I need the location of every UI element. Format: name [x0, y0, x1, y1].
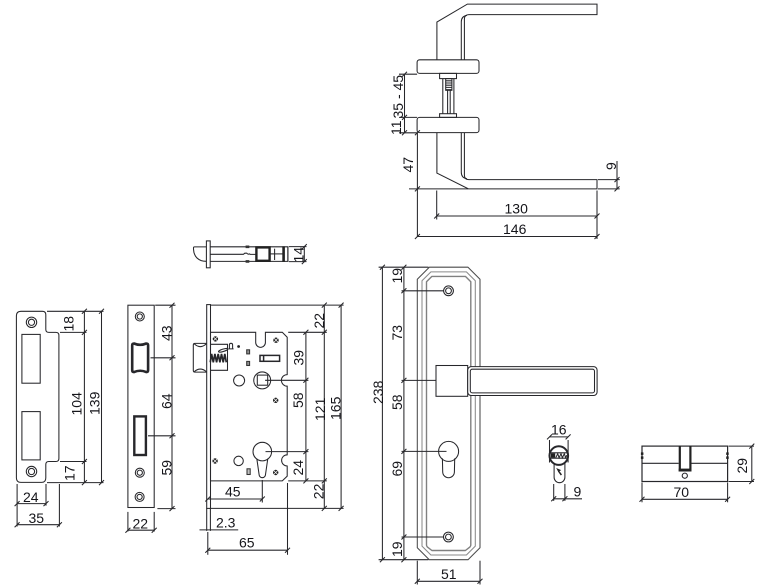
svg-text:22: 22 [133, 516, 149, 532]
dim line 39-58-24 [305, 332, 307, 481]
PART2 faceplate [125, 303, 175, 533]
key ward mark [556, 468, 561, 472]
extension 29 bottom [729, 481, 754, 483]
svg-text:22: 22 [311, 313, 327, 329]
svg-text:17: 17 [62, 465, 78, 481]
backplate hub [436, 366, 468, 397]
latch unit dark bar [282, 246, 285, 262]
small square lower [247, 361, 250, 365]
dim line 238 [381, 267, 383, 560]
ticks 9 [615, 177, 620, 191]
dim line 51 [417, 580, 480, 582]
ticks left dims [402, 72, 420, 239]
extension 29 top [729, 445, 754, 447]
dim line 18-104-17 [83, 311, 85, 482]
PART4 latch assembly [194, 241, 307, 268]
faceplate screw bottom [135, 492, 144, 501]
backplate inner outline [427, 276, 471, 550]
lower rosette [417, 117, 479, 132]
svg-text:9: 9 [574, 483, 582, 499]
keyhole pear [257, 459, 268, 478]
svg-text:130: 130 [505, 201, 529, 217]
dim line 165 [340, 305, 342, 508]
PART8 euro cylinder [640, 444, 755, 503]
faceplate deadbolt cutout [134, 416, 146, 455]
extension 9 right [564, 484, 566, 501]
backplate lever outer [468, 367, 597, 396]
backplate keyhole pear [442, 458, 454, 477]
svg-text:65: 65 [239, 535, 255, 551]
cylinder end ribs right [726, 452, 729, 455]
key cylinder face circle [550, 446, 569, 465]
svg-text:19: 19 [389, 268, 405, 284]
spindle threaded section [446, 79, 452, 91]
dim line 29 [751, 446, 753, 481]
svg-text:69: 69 [389, 461, 405, 477]
ticks faceplate dims [170, 303, 175, 511]
svg-text:47: 47 [400, 157, 416, 173]
cylinder parting line [642, 462, 728, 464]
extension screw top [402, 290, 444, 292]
extension 51 left [416, 561, 418, 585]
svg-text:73: 73 [389, 325, 405, 341]
extension 14 bottom [289, 261, 307, 263]
PART5 handle side view [388, 4, 620, 239]
latch unit bolt head [194, 247, 207, 261]
lower lever inner line [461, 133, 467, 179]
extension latch center [151, 357, 176, 359]
latch unit stop ticks [246, 247, 250, 262]
extension 16 right [567, 440, 569, 463]
extension 16 left [549, 440, 551, 463]
extension rosette gap bottom [399, 116, 417, 118]
key slot block [551, 453, 555, 457]
keyhole circle [253, 442, 272, 461]
screw top-right [273, 338, 278, 343]
screw mid-right [273, 398, 278, 403]
upper lever inner line [461, 15, 467, 59]
svg-text:29: 29 [734, 458, 750, 474]
lower hole [234, 456, 243, 465]
ticks 51 [415, 579, 483, 584]
svg-text:35: 35 [29, 510, 45, 526]
key slot wards [556, 454, 567, 458]
cam channel left wall [679, 446, 681, 471]
strike screw hole bottom [26, 466, 36, 476]
PART1 strike plate [15, 309, 104, 527]
faceplate screw top [135, 312, 144, 321]
extension 65 right [287, 483, 289, 555]
ticks 146 [595, 234, 600, 239]
ticks strike bottom dims [15, 501, 62, 527]
key slot band [550, 453, 568, 458]
svg-text:139: 139 [87, 391, 103, 415]
dim line 35-45 and 11 [404, 74, 406, 133]
dim line 9 key [554, 498, 582, 500]
extension 14 top [289, 246, 307, 248]
ticks 9 key [551, 496, 567, 501]
spring box [211, 344, 228, 370]
latch unit tail middle line [270, 253, 283, 255]
svg-text:59: 59 [159, 460, 175, 476]
backplate lever inner [470, 369, 594, 393]
svg-text:16: 16 [551, 421, 567, 437]
upper lever [437, 4, 597, 60]
svg-text:64: 64 [159, 393, 175, 409]
svg-text:22: 22 [310, 483, 326, 499]
extension hub center [402, 379, 437, 381]
ticks 16 [547, 434, 571, 439]
extension 70 right [727, 483, 729, 503]
extension deadbolt center [148, 435, 176, 437]
dim line 22 [128, 529, 154, 531]
latch bolt bevel arcs [194, 344, 206, 372]
dim line 9 [616, 161, 618, 189]
latch unit faceplate section [206, 241, 210, 268]
latch unit shaft line [210, 253, 255, 254]
dim line 130 [437, 215, 597, 217]
backplate keyhole circle [439, 441, 459, 461]
pin detail [229, 343, 234, 349]
svg-text:2.3: 2.3 [216, 514, 236, 530]
extension rosette bottom [399, 132, 417, 134]
extension right end [596, 191, 598, 240]
ticks backplate dims [380, 265, 407, 563]
ticks 14 [302, 244, 307, 264]
dim line 47 / 146 extension [416, 133, 418, 237]
dim line 19-73-58-69-19 [403, 267, 405, 560]
svg-text:238: 238 [370, 380, 386, 404]
extension 130 left [436, 191, 438, 220]
svg-text:14: 14 [291, 247, 307, 263]
svg-text:58: 58 [290, 392, 306, 408]
dim line 70 [642, 498, 728, 500]
svg-text:104: 104 [69, 392, 85, 416]
backplate screw top [444, 286, 454, 296]
extension 51 right [479, 561, 481, 585]
svg-text:24: 24 [23, 489, 39, 505]
cylinder body [642, 446, 728, 481]
extension 9 left [553, 484, 555, 501]
svg-text:70: 70 [674, 484, 690, 500]
latch unit end [287, 247, 289, 262]
dim line 24 [17, 503, 46, 505]
cam channel right wall [689, 446, 691, 471]
latch unit follower block [256, 247, 269, 260]
extension line 24 right [45, 484, 47, 506]
spindle inner shaft [448, 90, 451, 113]
spindle collar bottom [440, 114, 457, 118]
strike deadbolt cutout [22, 412, 40, 460]
upper rosette [417, 60, 479, 74]
ticks 65 [205, 548, 290, 553]
svg-text:146: 146 [503, 221, 527, 237]
cam pin circle [682, 473, 687, 478]
dim line 146 [417, 236, 597, 238]
dim line 139 [101, 311, 103, 482]
svg-text:121: 121 [312, 397, 328, 421]
PART7 key cylinder end [547, 421, 582, 501]
extension line 35 right [58, 484, 60, 527]
extension plate bottom [379, 559, 429, 561]
svg-text:9: 9 [603, 162, 619, 170]
dot detail [237, 345, 240, 348]
PART3 lock body [193, 303, 343, 555]
extension 9 top [598, 179, 620, 181]
svg-text:45: 45 [225, 484, 241, 500]
extension faceplate bottom [211, 507, 344, 509]
extension line 104 [60, 461, 87, 463]
faceplate outline [128, 305, 154, 507]
extension cylinder center [266, 451, 309, 453]
slot [260, 355, 280, 361]
strike screw hole top [26, 317, 36, 327]
spindle side rods [443, 79, 454, 114]
dim line 16 [550, 436, 569, 438]
backplate middle outline [422, 272, 475, 555]
ticks 70 [640, 497, 731, 502]
cam channel bottom [679, 469, 692, 472]
ticks lock right dims [303, 303, 343, 511]
ticks 29 [749, 444, 754, 484]
faceplate thickness extensions [206, 508, 208, 531]
svg-text:165: 165 [327, 396, 343, 420]
extension 22 right [153, 512, 155, 532]
extension line 18 [60, 331, 87, 333]
spring pointer [218, 348, 228, 353]
extension line top [47, 310, 104, 312]
dim line 35 [17, 524, 59, 526]
key cylinder pear [554, 463, 565, 482]
ticks 22 [125, 528, 156, 533]
svg-text:43: 43 [159, 325, 175, 341]
svg-text:51: 51 [441, 566, 457, 582]
extension plate top [379, 266, 429, 268]
screw bottom-left [212, 458, 217, 463]
latch unit body outline [210, 247, 288, 262]
extension line 24 left [16, 484, 18, 527]
extension handle end [409, 188, 468, 190]
latch bolt head [193, 343, 206, 372]
ticks strike vertical dims [82, 309, 104, 485]
svg-text:19: 19 [389, 541, 405, 557]
svg-text:11: 11 [388, 120, 404, 135]
dim line 45 [208, 498, 262, 500]
svg-text:24: 24 [290, 460, 306, 476]
extension 65 left [207, 532, 209, 555]
screw bottom-right [273, 470, 278, 475]
extension line bottom [47, 482, 104, 484]
extension screw bottom [402, 536, 444, 538]
svg-text:39: 39 [291, 350, 307, 366]
screw top-left [213, 336, 218, 341]
lock faceplate strip [207, 305, 211, 509]
extension case bottom [288, 480, 327, 482]
dim line 65 [208, 549, 288, 551]
faceplate latch cutout [132, 344, 148, 373]
extension rosette gap top [399, 73, 417, 75]
backplate outer outline [417, 267, 480, 560]
dim line 14 [303, 247, 305, 262]
svg-text:35 - 45: 35 - 45 [390, 75, 406, 119]
extension follower center [265, 379, 308, 381]
small square upper [247, 350, 250, 354]
extension keyhole center [402, 450, 447, 452]
extension keyhole center down [261, 480, 263, 503]
small rect near keyhole [247, 469, 250, 475]
dim line 2.3 [200, 529, 239, 531]
extension faceplate top [211, 304, 344, 306]
spindle collar top [440, 73, 457, 78]
latch unit tail cross line [274, 249, 276, 260]
extension 70 left [641, 483, 643, 503]
extension bottom [157, 508, 175, 510]
ticks 130 [434, 214, 599, 219]
extension 22 left [127, 512, 129, 532]
PART6 backplate [370, 265, 597, 585]
dim line 22-121-22 [323, 305, 325, 508]
faceplate screw mid [135, 468, 144, 477]
lock case outline with notches [211, 332, 288, 481]
svg-text:18: 18 [61, 316, 77, 332]
extension top [155, 304, 175, 306]
slot divider [263, 355, 265, 361]
guide hole [234, 375, 245, 386]
ticks 45 [205, 497, 264, 502]
svg-text:58: 58 [389, 394, 405, 410]
extension 9 bottom [598, 188, 620, 190]
dim line 43-64-59 [171, 305, 173, 508]
cylinder end ribs left [641, 452, 644, 455]
follower square [257, 375, 267, 385]
backplate screw bottom [444, 532, 454, 542]
follower circle [254, 372, 271, 389]
strike plate outline [16, 311, 59, 482]
strike latch cutout [22, 334, 40, 383]
lower lever [437, 133, 597, 189]
spring coil [210, 354, 226, 362]
extension case top [288, 331, 327, 333]
